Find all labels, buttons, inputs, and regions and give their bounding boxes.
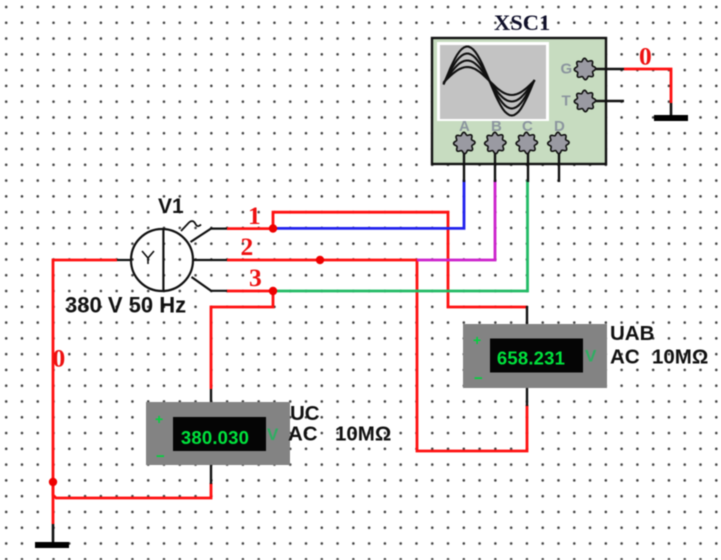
svg-text:−: −	[156, 448, 165, 465]
ground (bottom left)	[35, 524, 69, 548]
svg-text:1: 1	[248, 201, 261, 230]
wire phase 2: purple segment to scope channel B	[417, 180, 495, 260]
knob T	[574, 90, 595, 111]
svg-text:A: A	[459, 118, 470, 135]
junction phase 2	[316, 256, 324, 264]
wire net 0: red from UC meter bottom to ground junction	[53, 482, 211, 498]
svg-text:V: V	[267, 425, 279, 444]
oscilloscope XSC1	[432, 38, 624, 182]
knob B	[485, 132, 506, 153]
knob C	[516, 132, 537, 153]
svg-text:T: T	[562, 93, 571, 110]
svg-text:AC: AC	[288, 423, 318, 446]
voltmeter UC	[146, 389, 290, 484]
wire net 0: red from scope G pin to ground (top right)	[624, 69, 671, 103]
svg-text:2: 2	[241, 232, 254, 261]
svg-text:3: 3	[249, 263, 262, 292]
svg-text:−: −	[474, 370, 483, 387]
wire phase 2: red from source pin across	[227, 259, 417, 262]
knob D	[548, 132, 569, 153]
svg-text:XSC1: XSC1	[494, 10, 550, 35]
svg-text:AC: AC	[610, 346, 640, 369]
pin stub G	[596, 68, 624, 70]
wire net 0: red from source left lead down to ground	[53, 260, 117, 524]
wire phase 3: red branch down-left to UC meter + terminal	[211, 291, 273, 389]
junction on net 0 at ground branch	[49, 478, 57, 486]
wire phase 1: red branch up and over to UAB meter + terminal	[273, 212, 527, 307]
wire phase 1: red from source pin to junction	[227, 227, 274, 230]
wire phase 2: red branch down and to UAB meter - terminal	[417, 260, 527, 451]
three-phase source V1	[117, 221, 227, 291]
svg-text:0: 0	[639, 42, 652, 71]
svg-text:B: B	[491, 118, 502, 135]
svg-text:380 V 50 Hz: 380 V 50 Hz	[65, 293, 186, 318]
wire phase 3: green segment to scope channel C	[273, 180, 528, 291]
svg-text:+: +	[473, 332, 481, 348]
junction phase 1	[269, 224, 277, 232]
svg-text:10MΩ: 10MΩ	[652, 346, 708, 369]
ground (top right)	[654, 103, 688, 121]
svg-text:D: D	[554, 118, 565, 135]
pin stub T	[596, 100, 624, 102]
svg-text:G: G	[561, 61, 573, 78]
wire phase 1: blue segment to scope channel A	[273, 180, 464, 228]
svg-text:+: +	[155, 411, 163, 427]
knob G	[574, 58, 595, 79]
svg-text:V: V	[585, 347, 597, 366]
svg-text:10MΩ: 10MΩ	[335, 423, 391, 446]
svg-text:380.030: 380.030	[181, 427, 249, 448]
svg-text:C: C	[522, 118, 533, 135]
pin stub A	[463, 153, 465, 182]
svg-text:0: 0	[53, 344, 66, 373]
svg-text:658.231: 658.231	[497, 348, 565, 369]
svg-text:V1: V1	[158, 195, 184, 218]
pin stub C	[527, 153, 529, 182]
wire phase 3: red from source pin to junction	[227, 290, 274, 293]
svg-text:UAB: UAB	[610, 322, 654, 345]
junction phase 3	[269, 287, 277, 295]
voltmeter UAB	[463, 306, 607, 406]
pin stub D	[558, 153, 560, 182]
knob A	[454, 132, 475, 153]
pin stub B	[494, 153, 496, 182]
